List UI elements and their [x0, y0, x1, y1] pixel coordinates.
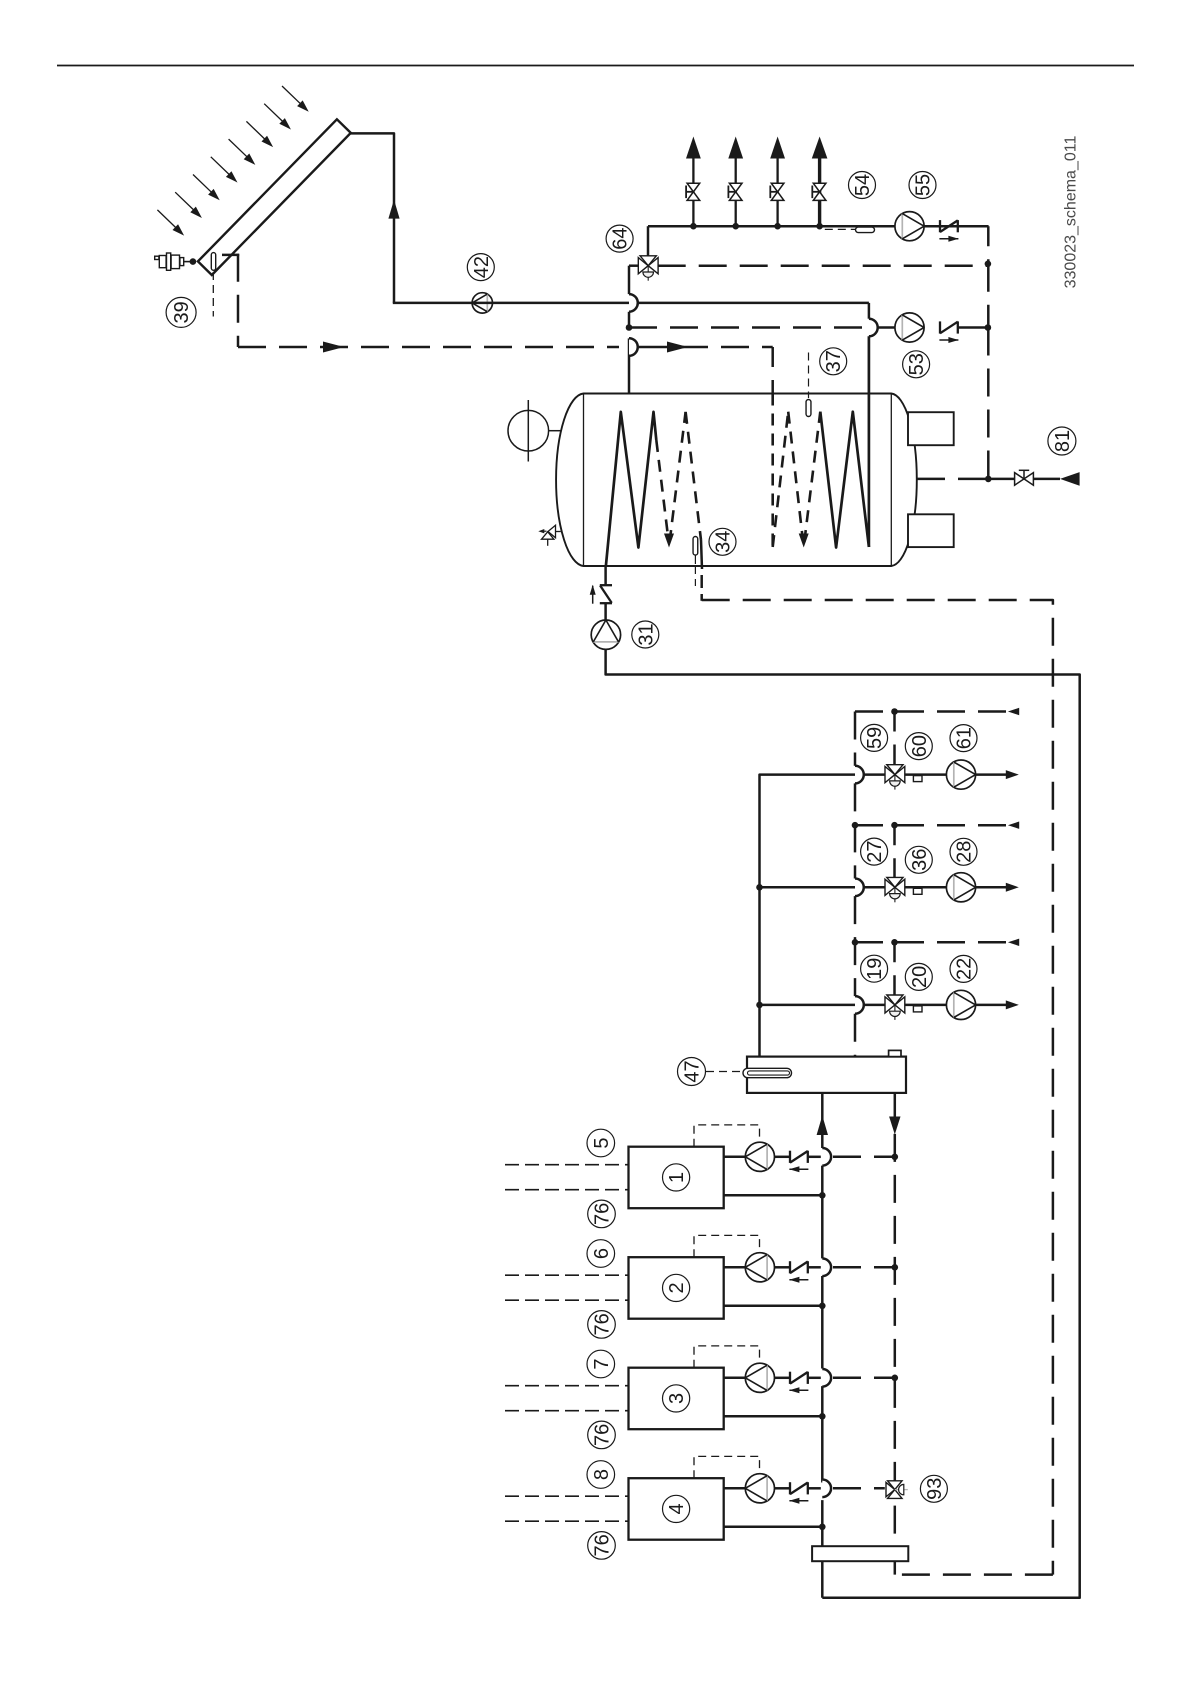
- pump 28: [946, 873, 975, 902]
- tank coil exit corner: [868, 303, 871, 319]
- label 34: [709, 528, 736, 555]
- node supply 2: [756, 884, 763, 891]
- pump 42: [472, 293, 492, 313]
- flow arrow up: [388, 200, 399, 219]
- node: [891, 708, 898, 715]
- circuit return dashed 27: [855, 824, 1007, 827]
- heating supply riser: [760, 775, 886, 1057]
- pump 22: [946, 990, 975, 1019]
- right coil dashed fall: [788, 412, 803, 541]
- svg-text:76: 76: [592, 1313, 614, 1335]
- left stub 1: [505, 1274, 629, 1276]
- valve 64 left port: [629, 264, 638, 267]
- boiler supply riser: [821, 1093, 824, 1148]
- union with check arrow: [939, 220, 941, 232]
- tank supply vertical 4: [628, 356, 631, 394]
- svg-text:330023_schema_011: 330023_schema_011: [1063, 136, 1080, 289]
- collector return down: [237, 254, 240, 347]
- riser 4: [818, 157, 821, 226]
- node riser 1: [690, 223, 697, 230]
- pump 55: [895, 212, 924, 241]
- left stub 2: [505, 1520, 629, 1522]
- distribution pipe: [648, 225, 989, 228]
- svg-text:39: 39: [171, 301, 193, 323]
- riser hop: [822, 1480, 831, 1498]
- sensor square: [913, 888, 922, 894]
- mixing valve 60: [887, 765, 903, 775]
- air vent valve 39: [155, 253, 184, 270]
- pump 53: [895, 313, 924, 342]
- svg-text:7: 7: [591, 1358, 613, 1369]
- label 36: [905, 846, 932, 873]
- return arrow: [1008, 708, 1019, 715]
- boiler return dashed drop: [894, 1093, 897, 1481]
- collector sensor line: [212, 272, 214, 317]
- hop return over supply 2: [855, 879, 864, 897]
- union with check arrow: [939, 321, 941, 333]
- boiler inlet line: [724, 1377, 746, 1380]
- riser hop: [822, 1369, 831, 1387]
- boiler return arrow down: [889, 1117, 900, 1135]
- collector return stub: [222, 254, 239, 257]
- label 60: [905, 733, 932, 760]
- riser 4 arrow: [812, 137, 828, 159]
- union flex: [600, 584, 612, 586]
- label 61: [950, 725, 977, 752]
- node supply 3: [756, 1002, 763, 1009]
- svg-text:93: 93: [924, 1478, 946, 1500]
- svg-text:76: 76: [592, 1424, 614, 1446]
- svg-text:42: 42: [471, 256, 493, 278]
- left stub 1: [505, 1385, 629, 1387]
- node collector outlet: [190, 258, 197, 265]
- dashed link to valve 93: [833, 1487, 885, 1490]
- line valve to pump: [905, 1004, 947, 1007]
- svg-text:22: 22: [954, 958, 976, 980]
- safety valve: [548, 525, 556, 537]
- control cable boiler 1: [694, 1125, 760, 1147]
- line to union: [775, 1487, 791, 1490]
- sensor 34 line: [694, 566, 696, 586]
- node: [892, 1375, 899, 1382]
- riser 1: [692, 157, 694, 226]
- valve drop: [893, 712, 896, 765]
- left stub 2: [505, 1189, 629, 1191]
- node: [985, 324, 992, 331]
- low-loss header: [747, 1057, 906, 1093]
- node: [819, 1192, 826, 1199]
- circuit supply out: [976, 773, 1007, 776]
- circuit return dashed 59: [855, 710, 1007, 713]
- node: [985, 476, 992, 483]
- sensor 54 pocket: [856, 227, 875, 233]
- heating return dashed riser: [854, 712, 857, 766]
- coil arrow down: [799, 534, 809, 548]
- return arrow: [1008, 939, 1019, 946]
- node riser 4: [816, 223, 823, 230]
- pipe: [604, 603, 607, 620]
- line valve to pump: [905, 886, 947, 889]
- control cable boiler 2: [694, 1235, 760, 1257]
- tank left seam: [583, 394, 585, 567]
- svg-text:1: 1: [666, 1172, 688, 1183]
- label 39: [166, 297, 196, 327]
- node: [626, 324, 633, 331]
- label 6: [587, 1240, 615, 1268]
- svg-text:31: 31: [635, 623, 657, 645]
- left coil solid: [606, 412, 656, 566]
- union with check arrow: [789, 1372, 791, 1384]
- svg-text:53: 53: [906, 353, 928, 375]
- coil arrow down: [664, 534, 674, 548]
- svg-text:34: 34: [713, 531, 735, 553]
- boiler inlet line: [724, 1156, 746, 1159]
- supply arrow: [1006, 1000, 1019, 1009]
- node: [819, 1524, 826, 1531]
- label 22: [950, 955, 977, 982]
- hop return over supply 1: [855, 766, 864, 784]
- line to riser hop: [808, 1266, 821, 1269]
- hop return over supply 3: [855, 996, 864, 1014]
- svg-text:60: 60: [909, 735, 931, 757]
- left coil dashed rise: [670, 412, 686, 542]
- svg-text:3: 3: [666, 1393, 688, 1404]
- svg-text:27: 27: [864, 840, 886, 862]
- right coil exit riser: [868, 336, 871, 547]
- label 76: [588, 1532, 616, 1560]
- label 7: [587, 1350, 615, 1378]
- sensor 47 line: [706, 1071, 742, 1073]
- riser 1 arrow: [686, 137, 701, 159]
- boiler 1: [629, 1147, 724, 1209]
- left coil dashed: [656, 440, 668, 538]
- riser 1 valve: [687, 183, 700, 192]
- supply arrow: [1006, 770, 1019, 779]
- label 93: [920, 1475, 947, 1502]
- node: [819, 1303, 826, 1310]
- left coil dashed fall: [686, 412, 701, 540]
- label 53: [903, 351, 930, 378]
- dashed drop 2: [987, 328, 990, 479]
- label 28: [950, 838, 977, 865]
- dashed link to return drop: [833, 1266, 895, 1269]
- boiler supply arrow up: [817, 1116, 828, 1136]
- riser 4 valve: [813, 183, 826, 192]
- sensor 34 pocket: [693, 537, 698, 556]
- label 27: [861, 838, 888, 865]
- line to valve 81: [988, 478, 1014, 481]
- node: [892, 1154, 899, 1161]
- label 81: [1048, 427, 1076, 455]
- label 8: [587, 1461, 615, 1489]
- collector return drop to tank: [771, 347, 774, 394]
- line to riser hop: [808, 1487, 821, 1490]
- node: [852, 822, 859, 829]
- header cap: [889, 1050, 901, 1056]
- svg-text:19: 19: [864, 958, 886, 980]
- tank right seam: [890, 394, 892, 567]
- valve drop: [893, 825, 896, 877]
- label 76: [588, 1311, 616, 1339]
- sensor 37 pocket: [806, 400, 811, 417]
- svg-text:76: 76: [592, 1203, 614, 1225]
- label 42: [467, 254, 494, 281]
- pump 31: [591, 620, 620, 649]
- circuit return dashed 19: [855, 941, 1007, 944]
- node riser 2: [732, 223, 739, 230]
- line to arrow: [1033, 478, 1060, 481]
- control cable boiler 4: [694, 1456, 760, 1478]
- DHW return dashed: [658, 264, 988, 267]
- sensor 54 line: [825, 228, 855, 230]
- 3-way valve 93: [888, 1481, 902, 1490]
- label 76: [588, 1421, 616, 1449]
- collector return run: [238, 346, 619, 349]
- label 19: [861, 955, 888, 982]
- mixing valve 36: [887, 877, 903, 887]
- boiler pump 2: [745, 1253, 774, 1282]
- valve 81: [1015, 473, 1024, 486]
- riser 2: [735, 157, 737, 226]
- flow arrow: [323, 342, 344, 353]
- return arrow: [1008, 822, 1019, 829]
- line to riser hop: [808, 1156, 821, 1159]
- line to drop: [958, 326, 988, 329]
- collector return run 2: [639, 346, 773, 349]
- DHW port dashed: [917, 478, 988, 481]
- corner down to DHW return: [987, 226, 990, 264]
- label 76: [588, 1200, 616, 1228]
- riser 3 arrow: [770, 137, 785, 159]
- riser 3 valve: [771, 183, 784, 192]
- supply branch 2: [760, 886, 886, 889]
- union with check arrow: [789, 1482, 791, 1494]
- circuit supply out: [976, 886, 1007, 889]
- loading return dashed to pump 53: [629, 326, 895, 329]
- node: [852, 939, 859, 946]
- left stub 1: [505, 1164, 629, 1166]
- node: [819, 1413, 826, 1420]
- heat-recovery to valve 93: [894, 1499, 897, 1574]
- tank supply vertical 2: [628, 312, 631, 328]
- tank bottom pipe: [604, 566, 607, 586]
- right coil entry dashed: [771, 394, 774, 548]
- supply branch 3: [760, 1004, 886, 1007]
- svg-text:2: 2: [666, 1282, 688, 1293]
- boiler inlet line: [724, 1487, 746, 1490]
- label 59: [861, 724, 888, 751]
- node: [891, 822, 898, 829]
- thermometer: [508, 410, 549, 451]
- riser 2 valve: [729, 183, 742, 192]
- pump 61: [946, 760, 975, 789]
- boiler pump 3: [745, 1363, 774, 1392]
- collector supply pipe: [350, 133, 395, 303]
- left stub 2: [505, 1410, 629, 1412]
- left stub 1: [505, 1495, 629, 1497]
- tank stub bottom: [908, 514, 954, 547]
- boiler outlet line: [724, 1194, 823, 1197]
- sensor 47 pocket: [743, 1068, 792, 1077]
- riser 3: [776, 157, 778, 226]
- sensor square: [913, 1006, 922, 1012]
- wall sleeve: [812, 1546, 908, 1561]
- valve 64 supply drop: [647, 226, 650, 256]
- svg-text:4: 4: [666, 1503, 688, 1514]
- storage tank shell: [556, 394, 917, 567]
- collector sensor pocket: [211, 253, 215, 271]
- svg-text:47: 47: [682, 1060, 704, 1082]
- riser 2 arrow: [728, 137, 743, 159]
- mixing valve 20: [887, 995, 903, 1005]
- page top rule: [57, 65, 1134, 67]
- hop supply over horizontal: [629, 294, 638, 312]
- riser hop: [822, 1148, 831, 1166]
- line valve to pump: [905, 773, 947, 776]
- hop supply over return: [629, 338, 638, 356]
- boiler outlet line: [724, 1415, 823, 1418]
- node: [892, 1264, 899, 1271]
- boiler inlet line: [724, 1266, 746, 1269]
- line to union: [775, 1377, 791, 1380]
- svg-text:37: 37: [823, 350, 845, 372]
- heat-recovery dashed loop: [702, 600, 1053, 1575]
- tank supply vertical 3: [628, 338, 631, 356]
- boiler outlet line: [724, 1526, 823, 1529]
- left stub 2: [505, 1299, 629, 1301]
- svg-text:55: 55: [913, 174, 935, 196]
- node: [985, 261, 992, 268]
- boiler 3: [629, 1368, 724, 1430]
- label 55: [909, 172, 936, 199]
- node riser 3: [774, 223, 781, 230]
- dashed drop: [987, 264, 990, 328]
- union with check arrow: [789, 1261, 791, 1273]
- svg-text:81: 81: [1052, 430, 1074, 452]
- boiler 4: [629, 1478, 724, 1540]
- boiler pump 1: [745, 1142, 774, 1171]
- label 37: [820, 348, 847, 375]
- boiler pump 4: [745, 1474, 774, 1503]
- union with check arrow: [789, 1151, 791, 1163]
- circuit supply out: [976, 1004, 1007, 1007]
- right coil dashed rise 2: [804, 412, 820, 542]
- svg-text:64: 64: [610, 227, 632, 249]
- sensor square: [913, 776, 922, 782]
- svg-text:28: 28: [954, 841, 976, 863]
- flow arrow in: [1060, 472, 1080, 486]
- right coil solid: [820, 412, 869, 548]
- svg-text:76: 76: [592, 1534, 614, 1556]
- valve drop: [893, 942, 896, 995]
- heat-recovery dashed bottom: [895, 1573, 1053, 1576]
- label 5: [587, 1129, 615, 1157]
- dashed link to return drop: [833, 1377, 895, 1380]
- supply pipe to tank: [393, 302, 869, 305]
- svg-text:36: 36: [909, 849, 931, 871]
- svg-text:59: 59: [864, 727, 886, 749]
- boiler outlet line: [724, 1305, 823, 1308]
- flow arrow: [667, 342, 688, 353]
- line to riser hop: [808, 1377, 821, 1380]
- 3-way valve 64: [640, 256, 656, 266]
- svg-text:54: 54: [852, 174, 874, 196]
- tank stub top: [908, 412, 954, 445]
- label 54: [849, 172, 876, 199]
- label 64: [606, 225, 633, 252]
- tank supply vertical: [628, 266, 631, 294]
- label 47: [678, 1058, 706, 1086]
- solar collector panel: [198, 119, 351, 275]
- svg-text:20: 20: [909, 966, 931, 988]
- heat-recovery return below tank: [700, 575, 703, 588]
- sun rays: [157, 86, 307, 234]
- svg-text:61: 61: [954, 727, 976, 749]
- sensor 37 line: [808, 353, 810, 399]
- control cable boiler 3: [694, 1346, 760, 1368]
- svg-text:6: 6: [591, 1248, 613, 1259]
- svg-text:5: 5: [591, 1137, 613, 1148]
- pipe to main return: [606, 649, 1080, 1597]
- dashed link to return drop: [833, 1156, 895, 1159]
- line to union: [775, 1156, 791, 1159]
- node: [891, 939, 898, 946]
- supply arrow: [1006, 883, 1019, 892]
- label 31: [632, 621, 659, 648]
- line to union: [775, 1266, 791, 1269]
- boiler 2: [629, 1257, 724, 1319]
- left coil exit: [701, 540, 702, 569]
- hop coil exit over return: [869, 319, 878, 337]
- svg-text:8: 8: [591, 1469, 613, 1480]
- riser hop: [822, 1259, 831, 1277]
- label 20: [905, 963, 932, 990]
- right coil dashed rise: [773, 412, 789, 547]
